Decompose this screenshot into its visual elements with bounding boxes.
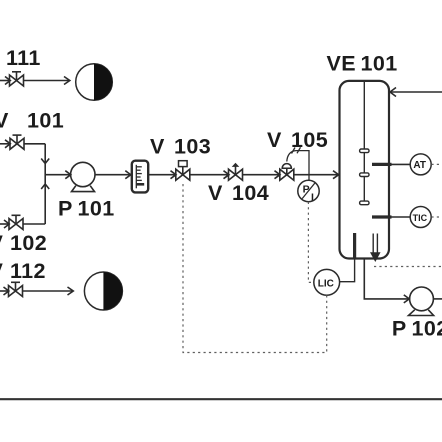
pump P101: [71, 162, 95, 191]
TIC probe (thick electrode): [372, 215, 392, 218]
electric signal from TIC (dashed): [431, 216, 442, 218]
label V 112: [0, 259, 46, 283]
flow arrow before V105: [275, 171, 281, 179]
valve V103 (with actuator box): [176, 161, 190, 181]
label V 104: [208, 181, 269, 205]
label V 105: [267, 128, 328, 152]
valve V112: [9, 282, 23, 296]
wire: V104 to V105: [243, 174, 281, 176]
label V 103: [150, 134, 211, 158]
flow arrow into vessel right wall: [390, 88, 396, 97]
wire: V112 outlet arrow: [23, 290, 74, 292]
flow arrow before P102: [404, 295, 410, 303]
flow arrow into vessel left wall: [333, 171, 339, 179]
label V 101: [0, 109, 64, 133]
wire: feed line into V101: [0, 143, 10, 145]
svg-text:V: V: [208, 181, 223, 205]
label VE 101: [327, 52, 398, 76]
svg-text:104: 104: [232, 181, 269, 205]
feed dip tube in vessel: [371, 234, 379, 261]
svg-text:103: 103: [174, 134, 211, 158]
wire: recycle feed into vessel right wall: [391, 91, 442, 93]
svg-text:P: P: [303, 184, 310, 196]
flow arrow down on junction: [41, 159, 49, 164]
product symbol (half-filled circle) top: [76, 64, 113, 101]
wire: feed line into V102: [0, 223, 9, 225]
wire: feed line into V111: [0, 80, 10, 82]
flow arrow before V103: [171, 171, 177, 179]
flow arrow before flowmeter: [125, 171, 131, 179]
svg-text:102: 102: [10, 231, 47, 255]
figure separator line: [0, 398, 442, 400]
flow arrow before P101: [65, 171, 71, 179]
svg-text:101: 101: [78, 197, 115, 221]
level tap dip tube (thick): [353, 233, 356, 259]
product symbol (half-filled circle) bottom: [84, 272, 122, 310]
vessel VE101: [340, 81, 390, 259]
instrument TIC: [410, 207, 431, 228]
AT probe (thick electrode): [372, 163, 392, 166]
svg-text:LIC: LIC: [318, 278, 334, 289]
valve V102: [9, 215, 23, 229]
label P 101: [58, 197, 115, 221]
svg-text:P: P: [392, 317, 407, 341]
valve V104: [229, 163, 243, 181]
svg-text:102: 102: [412, 317, 442, 341]
wire: junction vertical V101/V102: [44, 144, 46, 224]
wire: flowmeter to V103: [148, 174, 176, 176]
svg-text:112: 112: [10, 259, 46, 283]
wire: P101 to flowmeter: [95, 174, 132, 176]
flow arrow before V104: [224, 171, 230, 179]
wire: feed line into V112: [0, 290, 9, 292]
agitator paddle 3: [360, 201, 369, 205]
agitator paddle 2: [360, 173, 369, 177]
flowmeter FI (rotameter): [132, 161, 148, 193]
wire: V102 to junction: [23, 223, 45, 225]
electric signal from AT (dashed): [431, 163, 442, 165]
agitator paddle 1: [360, 149, 369, 153]
instrument LIC: [314, 269, 340, 295]
valve V101: [10, 135, 24, 149]
svg-text:101: 101: [27, 109, 64, 133]
svg-text:111: 111: [6, 46, 41, 70]
wire: P102 outlet: [433, 298, 442, 300]
electric signal from vessel bottom right (dashed): [374, 266, 442, 268]
svg-text:I: I: [311, 191, 314, 203]
flow arrow before V101: [5, 140, 10, 148]
agitator shaft in vessel: [363, 82, 365, 204]
flow arrow before V111: [5, 77, 10, 85]
wire: V103 to V104: [190, 174, 229, 176]
svg-text:V: V: [267, 128, 282, 152]
pneumatic signal line V105 actuator to P/I: [287, 147, 309, 180]
instrument P/I converter: [298, 180, 319, 203]
wire: junction to pump P101: [45, 174, 71, 176]
valve V111: [10, 72, 24, 86]
wire: level tap to LIC: [340, 259, 355, 282]
flow arrow up on junction: [41, 184, 49, 189]
svg-text:V: V: [150, 134, 165, 158]
instrument AT: [410, 154, 431, 175]
svg-text:VE: VE: [327, 52, 356, 76]
electric signal LIC to V103 (dashed): [183, 182, 327, 353]
svg-text:TIC: TIC: [413, 213, 428, 223]
wire: vessel outlet to pump P102: [364, 260, 409, 299]
svg-text:AT: AT: [413, 160, 426, 171]
svg-text:V: V: [0, 231, 4, 255]
svg-text:V: V: [0, 259, 4, 283]
svg-text:P: P: [58, 197, 73, 221]
wire: V101 to junction: [24, 143, 45, 145]
label P 102: [392, 317, 442, 341]
flow arrow before V102: [4, 220, 9, 228]
wire: V105 to vessel VE101: [294, 174, 339, 176]
svg-text:105: 105: [291, 128, 328, 152]
pump P102: [409, 287, 434, 316]
electric signal: P/I to LIC (dashed): [308, 202, 313, 283]
svg-text:101: 101: [361, 52, 398, 76]
svg-text:V: V: [0, 109, 9, 133]
wire: V111 outlet arrow: [24, 80, 70, 82]
flow arrow before V112: [4, 287, 9, 295]
control valve V105: [280, 164, 294, 181]
label V 102: [0, 231, 47, 255]
